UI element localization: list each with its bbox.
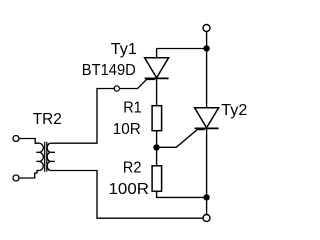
terminal: gate circle — [114, 86, 119, 91]
wire: top junction to Ty1 anode — [157, 48, 207, 50]
transformer TR2 primary lead bottom — [19, 171, 39, 179]
wire: gate circle to Ty1 gate — [120, 79, 155, 88]
svg-text:R2: R2 — [123, 159, 142, 176]
terminal: left bottom — [13, 175, 19, 181]
wire: R1/R2 junction to Ty2 gate — [157, 130, 205, 148]
terminal: top right — [203, 25, 210, 32]
transformer TR2 primary tap stub 2 — [36, 160, 39, 162]
svg-text:Ty2: Ty2 — [221, 102, 247, 119]
thyristor Ty2 triangle — [195, 108, 219, 128]
transformer TR2 primary tap stub 1 — [36, 151, 39, 153]
transformer TR2 core — [45, 142, 47, 172]
wire: transformer secondary top to gate circle — [51, 89, 114, 144]
transformer TR2 primary lead top — [19, 139, 39, 144]
thyristor Ty1 cathode bar — [145, 77, 169, 79]
wire: left branch through Ty1 R1 R2 to bottom elbow — [157, 49, 207, 198]
resistor R2 body — [152, 166, 162, 192]
transformer TR2 secondary winding — [47, 143, 51, 170]
transformer TR2 primary winding — [39, 143, 43, 170]
svg-text:TR2: TR2 — [33, 111, 62, 128]
thyristor Ty2 cathode bar — [195, 127, 219, 129]
wire: right rail — [206, 32, 208, 214]
wire: transformer secondary bottom to bottom terminal — [51, 171, 203, 219]
svg-text:10R: 10R — [113, 121, 141, 138]
junction: top rail — [203, 45, 209, 51]
transformer TR2 secondary tap stub 2 — [51, 160, 55, 162]
junction: R1/R2 node — [153, 144, 159, 150]
svg-text:BT149D: BT149D — [82, 62, 136, 79]
terminal: left top — [13, 136, 19, 142]
junction: bottom rail — [203, 194, 209, 200]
resistor R1 body — [152, 106, 162, 131]
svg-text:100R: 100R — [109, 181, 150, 198]
svg-text:R1: R1 — [123, 99, 142, 116]
transformer TR2 secondary tap stub 1 — [51, 151, 55, 153]
svg-text:Ty1: Ty1 — [111, 41, 137, 58]
thyristor Ty1 triangle — [145, 58, 169, 78]
terminal: bottom right — [203, 215, 210, 222]
